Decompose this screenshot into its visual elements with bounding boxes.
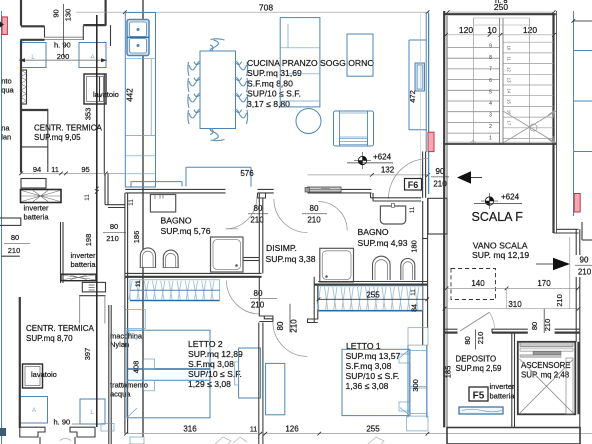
svg-text:na: na	[1, 124, 10, 133]
svg-text:DEPOSITO: DEPOSITO	[456, 354, 497, 363]
balcony window wall soggiorno	[409, 13, 429, 198]
svg-text:17: 17	[507, 121, 512, 126]
svg-text:180: 180	[409, 240, 418, 253]
label h. 90 bottom	[54, 418, 86, 427]
bidet bagno2	[401, 259, 415, 281]
label DISIMP	[266, 243, 316, 264]
svg-text:408: 408	[132, 361, 141, 374]
below-floor arcs bottom	[60, 437, 384, 444]
dim 84 wardrobe letto1	[412, 304, 419, 312]
svg-text:210: 210	[578, 268, 592, 277]
section line A	[142, 0, 144, 437]
svg-text:255: 255	[366, 291, 380, 300]
svg-text:90: 90	[580, 256, 589, 265]
svg-text:120: 120	[459, 25, 473, 35]
ascensore cross	[520, 358, 574, 414]
dim 180 vertical bagno2	[409, 240, 418, 253]
svg-text:11: 11	[84, 194, 91, 201]
dim 80 210 ascensore rot	[530, 309, 552, 333]
dining chairs	[188, 39, 248, 141]
svg-text:80: 80	[11, 233, 19, 242]
svg-text:S.F.mq 3,08: S.F.mq 3,08	[188, 359, 234, 369]
label trattamento acqua	[110, 381, 148, 399]
label 90 210 door F6	[431, 167, 449, 189]
svg-text:A: A	[32, 408, 36, 414]
svg-text:210: 210	[476, 332, 485, 345]
bed letto2	[127, 330, 210, 418]
label DEPOSITO	[456, 354, 503, 373]
svg-text:CUCINA PRANZO SOGGIORNO: CUCINA PRANZO SOGGIORNO	[247, 58, 374, 68]
svg-text:15: 15	[507, 99, 512, 104]
wall niche south block	[20, 109, 48, 172]
furniture letto1 west	[266, 363, 285, 414]
wall left bottom	[0, 256, 20, 436]
svg-text:BAGNO: BAGNO	[161, 216, 192, 226]
svg-text:80: 80	[310, 204, 319, 213]
svg-text:6: 6	[489, 78, 492, 84]
svg-text:SUP. mq 2,48: SUP. mq 2,48	[521, 371, 570, 380]
svg-text:qua: qua	[1, 86, 14, 95]
svg-text:SUP.mq 5,76: SUP.mq 5,76	[161, 226, 211, 236]
label F5	[469, 387, 488, 402]
svg-text:310: 310	[508, 300, 522, 309]
svg-text:472: 472	[408, 90, 417, 103]
window sill element	[415, 63, 425, 91]
door deposito leaf	[460, 312, 495, 331]
dim 250 stair	[446, 2, 556, 14]
svg-text:SUP.mq 13,57: SUP.mq 13,57	[346, 351, 401, 361]
label 80 210 left edge	[4, 233, 30, 255]
svg-text:80: 80	[254, 204, 263, 213]
svg-text:SUP.mq 31,69: SUP.mq 31,69	[247, 68, 302, 78]
wall step left mid	[79, 282, 105, 323]
dim bottom 316 11 126 255	[124, 425, 592, 436]
svg-text:10: 10	[487, 25, 497, 35]
svg-text:80: 80	[110, 222, 118, 231]
svg-text:10: 10	[507, 46, 512, 51]
dining table	[200, 51, 236, 129]
svg-text:SUP/10 ≤ S.F.: SUP/10 ≤ S.F.	[247, 89, 301, 99]
svg-text:SUP. mq 12,19: SUP. mq 12,19	[472, 250, 529, 260]
svg-text:170: 170	[537, 279, 551, 288]
label h. 90 top-left	[54, 41, 71, 50]
dim 708 top	[76, 3, 429, 15]
door arc disimpegno north	[274, 199, 308, 233]
svg-text:1,36 ≤ 3,08: 1,36 ≤ 3,08	[346, 381, 389, 391]
label inverter batteria 2	[71, 251, 97, 269]
wall disimp south jambs	[259, 277, 318, 323]
svg-text:2: 2	[489, 124, 492, 130]
wall disimp west	[244, 193, 263, 274]
walls right of scala	[554, 222, 592, 427]
dim 186 vertical	[132, 231, 141, 244]
dim 310	[443, 300, 581, 311]
dim 408 vertical	[132, 361, 141, 374]
svg-text:210: 210	[251, 301, 265, 310]
dim 132	[308, 166, 430, 177]
svg-text:132: 132	[381, 166, 395, 175]
dim 198 vertical	[84, 234, 93, 247]
arrow right out scala	[536, 258, 570, 271]
svg-text:90: 90	[52, 9, 61, 17]
stair direction cross	[503, 111, 556, 143]
wire left boundary blue line	[1, 11, 3, 444]
lavatoio sink top	[84, 74, 106, 104]
svg-text:186: 186	[132, 231, 141, 244]
label macchina Nylan	[110, 332, 143, 350]
dim 140 170	[445, 279, 580, 290]
svg-text:SUP.mq 8,70: SUP.mq 8,70	[26, 334, 73, 343]
inverter batteria hatch box 2	[61, 274, 96, 281]
dim 80 210 disimp door	[302, 204, 327, 224]
svg-text:4: 4	[489, 101, 492, 107]
door arc bagno1	[226, 196, 257, 229]
svg-text:+624: +624	[501, 193, 520, 202]
wardrobe letto2 hatched	[129, 280, 220, 301]
svg-text:8: 8	[489, 55, 492, 61]
level marker +624 scala	[474, 193, 522, 210]
wall left apartment bottom east	[109, 305, 111, 444]
niche box left edge	[0, 218, 21, 225]
dim 472 vertical	[408, 90, 417, 103]
svg-text:80: 80	[276, 321, 285, 330]
svg-text:94: 94	[33, 165, 41, 174]
wall right of niche	[110, 25, 112, 46]
wall deposito east	[512, 333, 515, 428]
partial label trattamento acqua neighbor	[1, 77, 14, 95]
dim 80 210 letto1 door rotated	[276, 304, 298, 333]
wall cavedio left of bagno1	[105, 174, 125, 208]
shower bagno2	[320, 248, 354, 282]
cabinet L bottom	[80, 399, 105, 424]
svg-text:CENTR. TERMICA: CENTR. TERMICA	[26, 324, 95, 333]
svg-text:210: 210	[555, 294, 564, 307]
door arc bagno2	[318, 202, 347, 231]
svg-text:130: 130	[64, 9, 73, 22]
svg-text:185: 185	[444, 366, 453, 379]
svg-text:210: 210	[307, 215, 321, 224]
svg-text:11: 11	[135, 280, 142, 287]
wall top-left niche	[21, 0, 106, 40]
wall inner left apartment	[61, 222, 64, 283]
section line B	[95, 15, 99, 427]
svg-text:11: 11	[409, 206, 416, 213]
room below right	[447, 428, 580, 444]
dim 11 vertical small	[135, 279, 142, 286]
kitchen counter strip	[125, 13, 155, 188]
label ASCENSORE	[521, 361, 571, 380]
label lavatoio bottom	[31, 370, 57, 379]
radiator gray bar	[305, 187, 341, 192]
svg-text:120: 120	[523, 25, 537, 35]
svg-text:nto: nto	[1, 77, 11, 86]
svg-text:inverter: inverter	[24, 204, 50, 213]
label LETTO 2	[188, 339, 243, 389]
armchair	[334, 111, 374, 146]
dim 120 10 120 stair	[444, 25, 556, 37]
hatched shaft left wall	[21, 70, 27, 104]
stair bottom landing	[444, 141, 556, 145]
svg-text:210: 210	[543, 319, 552, 332]
dim 442 vertical kitchen	[126, 88, 135, 102]
wall bagno1 south	[125, 273, 261, 276]
bed letto1	[342, 349, 410, 415]
balcony right strip	[571, 11, 592, 216]
wall bottom-left niches	[20, 427, 95, 444]
wall bagno2 east	[423, 198, 428, 345]
svg-text:353: 353	[84, 108, 93, 121]
partial label h 8 top	[495, 0, 508, 5]
svg-text:11: 11	[128, 199, 135, 206]
door arc letto2	[227, 281, 261, 315]
svg-text:Nylan: Nylan	[110, 340, 129, 349]
dim 11 bagno2	[409, 206, 416, 213]
svg-text:h. 90: h. 90	[54, 418, 71, 427]
svg-text:lavatoio: lavatoio	[31, 370, 57, 379]
svg-text:SUP.mq 2,59: SUP.mq 2,59	[456, 364, 503, 373]
svg-text:1: 1	[489, 136, 492, 142]
lavatoio sink bottom	[23, 364, 43, 388]
svg-text:11: 11	[250, 427, 257, 434]
dim 94 11 95	[19, 165, 126, 175]
level marker +624 living	[347, 152, 393, 169]
dim 11 bagno1 sink	[128, 199, 135, 206]
red marker soggiorno east wall	[428, 132, 434, 151]
dim extension line x420	[419, 14, 421, 192]
dim 11 vertical left	[84, 194, 91, 201]
dim 185 vertical deposito	[444, 366, 453, 379]
svg-text:SUP.mq 9,05: SUP.mq 9,05	[34, 133, 81, 142]
svg-text:1,29 ≤ 3,08: 1,29 ≤ 3,08	[188, 379, 231, 389]
svg-text:708: 708	[259, 3, 273, 13]
bidet bagno1	[163, 250, 180, 267]
wc bagno2	[372, 256, 390, 280]
label CENTR. TERMICA 9,05	[34, 124, 103, 143]
svg-text:batteria: batteria	[24, 213, 50, 222]
wall bagno2 south	[314, 282, 427, 285]
svg-text:300: 300	[411, 379, 420, 392]
svg-text:inverter: inverter	[490, 382, 516, 391]
svg-text:batteria: batteria	[71, 260, 97, 269]
dim 80 210 letto2 door	[250, 289, 277, 310]
sink bagno1	[150, 195, 175, 213]
svg-text:140: 140	[471, 279, 485, 288]
label LETTO 1	[346, 341, 401, 391]
cabinet blue bottom-left letto2	[101, 424, 144, 444]
svg-text:210: 210	[8, 246, 21, 255]
wall letto1 letto2	[259, 323, 263, 444]
label VANO SCALA	[472, 241, 529, 261]
blue bracket 576	[131, 167, 254, 186]
inverter batteria hatch box 1	[21, 190, 62, 203]
svg-text:12: 12	[507, 67, 512, 72]
stair step numbers	[489, 44, 492, 142]
svg-text:95: 95	[81, 165, 89, 174]
partial label macchina nylan neighbor	[1, 124, 11, 142]
wardrobe letto1 hatched	[317, 286, 429, 311]
svg-text:3: 3	[489, 113, 492, 119]
svg-text:13: 13	[507, 78, 512, 83]
svg-text:h. 8: h. 8	[495, 0, 508, 5]
stair step numbers upper flight	[507, 46, 512, 126]
wall bagno1 west	[125, 193, 128, 434]
closet letto2 west	[126, 310, 146, 329]
svg-text:255: 255	[366, 425, 380, 434]
svg-text:9: 9	[489, 44, 492, 50]
dim 200 with arrows	[19, 52, 107, 62]
furniture letto2 east	[235, 348, 261, 398]
svg-text:SUP/10 ≤ S.F.: SUP/10 ≤ S.F.	[346, 371, 400, 381]
label 80 210 bagno door west	[103, 222, 126, 243]
stair stringers	[474, 18, 530, 144]
svg-text:210: 210	[289, 319, 298, 333]
sink bagno2	[380, 203, 405, 224]
dim 300 vertical letto1	[411, 379, 420, 392]
dim 80 210 bagno1 door	[248, 204, 268, 224]
ascensore walls	[518, 342, 579, 415]
svg-text:CENTR. TERMICA: CENTR. TERMICA	[34, 124, 103, 133]
sofa	[280, 18, 320, 107]
svg-text:316: 316	[183, 425, 197, 434]
wall pilaster between soggiorno and scala	[428, 198, 447, 234]
svg-text:SUP.mq 12,89: SUP.mq 12,89	[188, 349, 243, 359]
dim 210 vertical vano	[555, 237, 570, 309]
svg-text:576: 576	[240, 169, 254, 178]
cabinet A top-left	[79, 43, 106, 68]
stair outer walls	[444, 11, 556, 427]
dim 80 210 deposito door rot	[463, 330, 485, 350]
svg-text:trattamento: trattamento	[110, 381, 148, 390]
svg-text:SUP.mq 4,93: SUP.mq 4,93	[358, 238, 408, 248]
svg-text:A: A	[90, 55, 94, 61]
label 90 210 right door	[575, 256, 592, 277]
label CUCINA PRANZO SOGGIORNO	[247, 58, 374, 109]
svg-text:126: 126	[285, 425, 299, 434]
svg-text:198: 198	[84, 234, 93, 247]
door arc letto1	[273, 322, 307, 357]
blue element deposito	[459, 407, 503, 414]
svg-text:11: 11	[410, 289, 417, 296]
label F6	[405, 179, 422, 191]
wall vano scala south	[444, 288, 580, 332]
svg-text:S.F.mq 3,08: S.F.mq 3,08	[346, 361, 392, 371]
dashed box vano scala	[451, 269, 496, 300]
kitchen sink double	[127, 20, 149, 56]
round table	[296, 109, 321, 134]
svg-text:442: 442	[126, 88, 135, 102]
dim 353 vertical	[84, 108, 93, 121]
svg-text:SUP.mq 3,38: SUP.mq 3,38	[266, 254, 316, 264]
shower bagno1	[211, 237, 244, 272]
label lavatoio top	[93, 90, 119, 99]
wc bagno1	[140, 248, 157, 268]
svg-text:200: 200	[57, 52, 70, 61]
label inverter batteria 1	[24, 204, 50, 222]
svg-text:inverter: inverter	[71, 251, 97, 260]
dim 90 130 window	[52, 4, 73, 57]
svg-text:S.F.mq 8,80: S.F.mq 8,80	[247, 78, 293, 88]
stair treads	[447, 42, 554, 138]
red marker left wall	[0, 17, 7, 35]
dim 397 vertical	[83, 348, 92, 361]
svg-text:BAGNO: BAGNO	[358, 227, 389, 237]
svg-text:+624: +624	[373, 153, 392, 162]
wall bagno north	[125, 189, 371, 198]
svg-text:210: 210	[250, 215, 264, 224]
label BAGNO 5,76	[161, 216, 211, 236]
wall step below dim	[21, 179, 46, 189]
tv cabinet	[347, 34, 373, 76]
svg-text:SCALA F: SCALA F	[472, 210, 524, 224]
svg-text:lan: lan	[1, 133, 11, 142]
wall left CENTR TERMICA 9,05	[21, 40, 104, 173]
svg-text:SUP/10 ≤ S.F.: SUP/10 ≤ S.F.	[188, 369, 242, 379]
svg-text:DISIMP.: DISIMP.	[266, 243, 297, 253]
svg-text:h. 90: h. 90	[54, 41, 71, 50]
svg-text:210: 210	[106, 234, 119, 243]
svg-text:84: 84	[412, 304, 419, 312]
svg-text:80: 80	[463, 336, 472, 344]
window letto1 east	[407, 328, 428, 431]
svg-text:80: 80	[254, 289, 263, 298]
dim 11 wardrobe letto2	[135, 280, 142, 287]
svg-text:F5: F5	[473, 391, 485, 402]
door arc F6	[389, 159, 429, 199]
label SCALA F	[472, 210, 524, 224]
svg-text:F6: F6	[408, 180, 419, 190]
svg-text:397: 397	[83, 348, 92, 361]
label CENTR. TERMICA 8,70	[26, 324, 95, 343]
svg-text:7: 7	[489, 67, 492, 73]
svg-text:LETTO 2: LETTO 2	[188, 339, 223, 349]
cabinet L top-left	[21, 43, 47, 68]
cabinet A bottom	[20, 397, 48, 424]
svg-text:11: 11	[507, 57, 512, 62]
svg-text:ASCENSORE: ASCENSORE	[521, 361, 571, 370]
svg-text:14: 14	[507, 88, 512, 93]
svg-text:5: 5	[489, 90, 492, 96]
svg-text:11: 11	[51, 165, 59, 174]
svg-text:80: 80	[530, 322, 539, 330]
label BAGNO 4,93	[358, 227, 408, 248]
wall bagno2 north low	[371, 193, 422, 201]
svg-text:LETTO 1: LETTO 1	[346, 341, 381, 351]
label inverter batteria deposito	[490, 382, 516, 401]
dim 11 wardrobe letto1	[410, 289, 417, 296]
ascensore door hatch	[520, 343, 573, 358]
red marker right strip	[574, 194, 580, 213]
arrow left into scala	[457, 171, 482, 183]
svg-text:VANO SCALA: VANO SCALA	[473, 241, 528, 251]
